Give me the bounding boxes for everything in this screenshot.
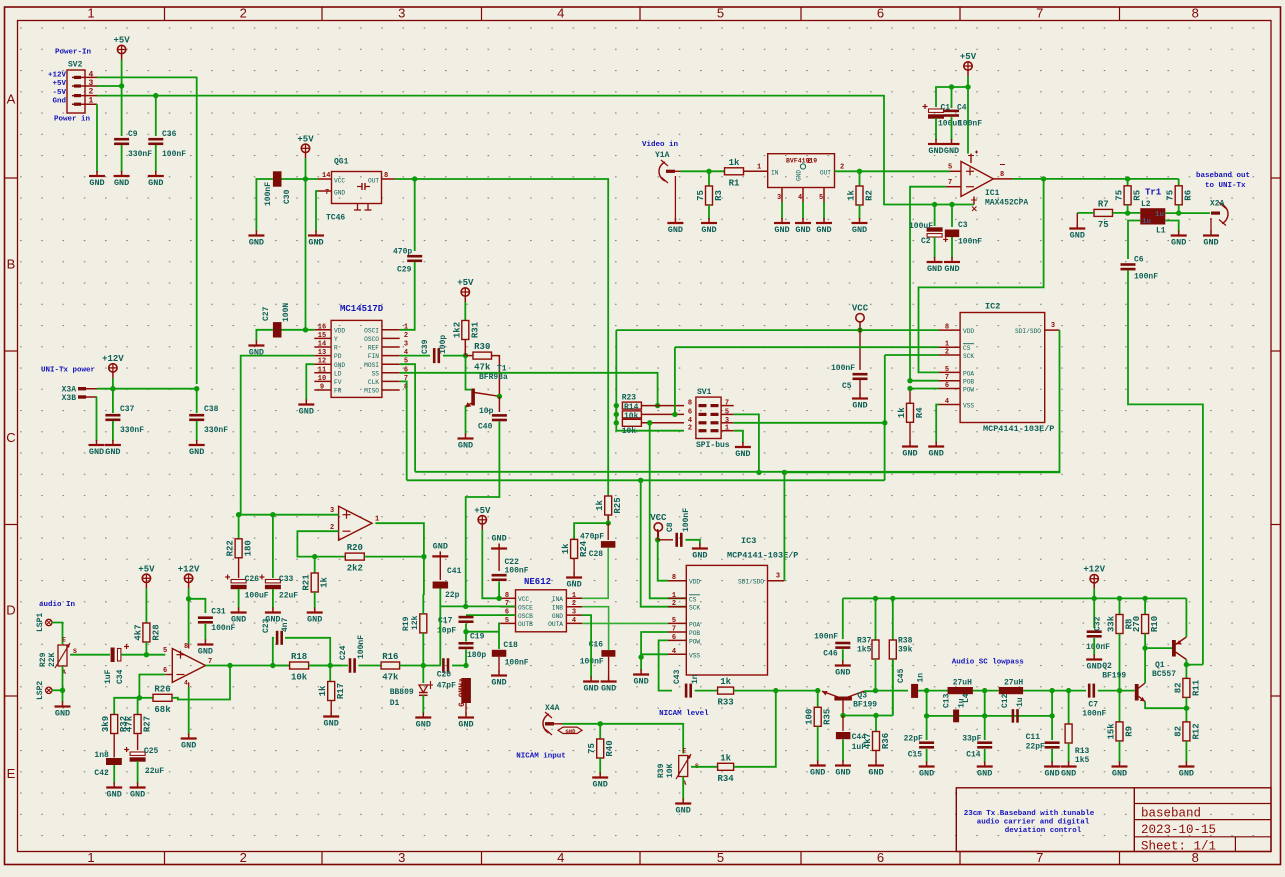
resistor R21 (302, 573, 330, 592)
svg-text:3k9: 3k9 (101, 716, 111, 732)
capacitor C8 plates (675, 533, 682, 547)
svg-text:GND: GND (566, 580, 581, 590)
svg-text:GND: GND (601, 684, 616, 694)
svg-text:5: 5 (717, 6, 724, 21)
ground R36 (868, 761, 884, 778)
svg-text:75: 75 (1098, 220, 1109, 230)
svg-text:C3: C3 (958, 221, 968, 230)
svg-text:GND: GND (668, 225, 683, 235)
wire emitter to ground (465, 406, 467, 434)
wire Q1 collector down (1185, 660, 1187, 665)
svg-text:GND: GND (593, 780, 608, 790)
svg-text:GND: GND (852, 225, 867, 235)
svg-text:BFR93a: BFR93a (479, 373, 508, 382)
svg-text:R39: R39 (657, 763, 666, 778)
junction sum node (773, 688, 778, 693)
capacitor C25 (124, 747, 146, 762)
svg-text:100nF: 100nF (958, 120, 982, 129)
svg-text:2: 2 (240, 850, 247, 865)
svg-text:4k7: 4k7 (133, 624, 143, 640)
wire R32 to C42 (113, 734, 115, 758)
junction VCC C22 (496, 596, 501, 601)
capacitor C31 plates (198, 616, 213, 623)
svg-text:7: 7 (945, 374, 949, 382)
svg-text:7: 7 (672, 626, 676, 634)
resistor R32 (101, 715, 129, 734)
svg-text:POW: POW (963, 387, 974, 394)
svg-text:to UNI-Tx: to UNI-Tx (1205, 182, 1246, 190)
svg-text:BB809: BB809 (390, 688, 414, 697)
svg-text:100nF: 100nF (264, 182, 273, 206)
svg-text:47k: 47k (474, 363, 491, 373)
capacitor C3 body (945, 230, 959, 238)
wire VSS to POB ground (641, 654, 668, 657)
svg-text:C40: C40 (478, 423, 493, 432)
pin stub op1 - input (165, 674, 172, 676)
capacitor C28 body (601, 541, 616, 548)
svg-text:OUTB: OUTB (518, 621, 533, 628)
svg-text:LSP1: LSP1 (36, 613, 45, 632)
svg-text:R24: R24 (579, 540, 589, 557)
capacitor C43 plates (685, 684, 692, 698)
svg-text:180: 180 (244, 540, 254, 556)
svg-text:1: 1 (945, 341, 949, 349)
wire to C31 (189, 599, 206, 613)
wire C19 to varactor node (465, 650, 467, 666)
wire C43 to R33 (695, 690, 718, 692)
svg-text:2: 2 (240, 6, 247, 21)
resistor R35 (817, 691, 819, 708)
svg-text:3: 3 (725, 417, 729, 425)
svg-text:6: 6 (877, 6, 884, 21)
junction base node (840, 713, 845, 718)
capacitor C20 plates (442, 658, 449, 673)
resistor R9 (1119, 691, 1121, 722)
svg-text:5: 5 (948, 164, 952, 172)
svg-text:100nF: 100nF (162, 150, 186, 159)
svg-text:1: 1 (572, 592, 576, 600)
wire op1 V- to ground (188, 687, 190, 735)
ground C22 (inverted) (491, 534, 507, 549)
svg-text:GND: GND (735, 449, 750, 459)
svg-text:GND: GND (927, 264, 942, 274)
svg-text:MAX452CPA: MAX452CPA (985, 199, 1028, 208)
IC video filter BVF41919 box (768, 154, 835, 188)
junction output/feedback (1041, 176, 1046, 181)
svg-text:100nF: 100nF (211, 624, 235, 633)
power symbol +5V R31 (457, 278, 474, 302)
svg-text:2023-10-15: 2023-10-15 (1141, 823, 1216, 837)
junction C36 tap (153, 93, 158, 98)
ground R12 (1178, 762, 1194, 779)
junction Q2 collector / Q1 base (1142, 645, 1147, 650)
resistor R21 (314, 557, 316, 573)
svg-text:75: 75 (696, 190, 706, 201)
svg-text:R11: R11 (1191, 679, 1201, 696)
svg-text:SCK: SCK (689, 605, 700, 612)
wire Q2 collector to Q1 base (1145, 647, 1172, 649)
wire OSCB to C17 top (466, 614, 516, 616)
resistor R17 (329, 666, 331, 682)
svg-text:Gnd: Gnd (52, 97, 66, 105)
wire collector to baseband riser (1186, 664, 1203, 666)
connector X4A (543, 704, 562, 735)
SV1 right stubs (721, 406, 734, 431)
connector pin X3B (62, 394, 97, 403)
svg-text:39k: 39k (898, 646, 913, 655)
wire POW (910, 388, 939, 390)
wire CS line from SV1 (675, 346, 939, 348)
wire POA from NE612 OUTA (582, 622, 668, 624)
resistor R19 (420, 614, 427, 633)
svg-text:GND: GND (1179, 769, 1194, 779)
junction POB (907, 378, 912, 383)
svg-text:13: 13 (318, 349, 326, 357)
capacitor C9 plates (114, 138, 129, 145)
resistor R34 (717, 753, 734, 784)
svg-text:R30: R30 (474, 342, 490, 352)
svg-text:82: 82 (1173, 682, 1183, 693)
svg-text:7: 7 (325, 189, 329, 197)
svg-text:8: 8 (945, 324, 949, 332)
wire R20 right to op2 output riser (364, 556, 424, 558)
junction feedback node (137, 695, 142, 700)
svg-text:Q1: Q1 (1155, 661, 1165, 670)
junction VDD +5V (303, 327, 308, 332)
power symbol VCC IC2 (852, 304, 869, 328)
wire SDO riser to bus (784, 330, 1059, 472)
svg-text:GND: GND (701, 225, 716, 235)
svg-text:2: 2 (404, 332, 408, 340)
resistor R40 (587, 739, 615, 758)
svg-text:C46: C46 (823, 650, 838, 659)
wire R7 left to ground (1076, 213, 1078, 225)
svg-text:GND: GND (307, 615, 322, 625)
svg-text:C29: C29 (397, 266, 412, 275)
capacitor C1 (923, 104, 945, 119)
ground C46 (835, 661, 851, 678)
svg-text:C30: C30 (283, 189, 292, 204)
svg-text:47pF: 47pF (437, 682, 456, 691)
ground filter pin5 (816, 218, 832, 235)
resistor R18 (273, 665, 290, 667)
svg-text:9: 9 (320, 384, 324, 392)
junction R25 bottom / R24 (606, 520, 611, 525)
wire pot wiper to R34 (691, 766, 718, 768)
ground R13 (1061, 762, 1077, 779)
svg-text:R12: R12 (1191, 723, 1201, 739)
svg-text:4: 4 (557, 850, 564, 865)
wire R24 branch (574, 523, 608, 539)
svg-text:R10: R10 (1150, 616, 1160, 632)
svg-text:100nF: 100nF (958, 238, 982, 247)
wire op1 output (206, 665, 342, 667)
ground C3 (944, 257, 960, 274)
svg-text:B: B (7, 257, 16, 272)
capacitor C2 (927, 227, 949, 242)
wire L5 to C7 (1023, 690, 1086, 692)
resistor R28 (145, 588, 147, 623)
svg-text:1k: 1k (318, 685, 328, 696)
ground C16 (601, 677, 617, 694)
pin stub QG1 VCC (318, 178, 332, 180)
svg-text:NE612: NE612 (524, 577, 551, 587)
resistor R17 (318, 682, 346, 701)
svg-text:1: 1 (757, 164, 761, 172)
wire SV2 pin3 to +5V column (97, 85, 122, 87)
wire C30 to ground (256, 179, 273, 232)
IC MC14517D box (331, 304, 384, 397)
wire SV1 pin3 long to SCK riser (734, 423, 885, 481)
potentiometer R39 (657, 748, 699, 788)
svg-text:GND: GND (249, 238, 264, 248)
svg-text:R29: R29 (39, 652, 48, 667)
wire SV1 pin1 to ground (734, 431, 743, 443)
video filter bottom stubs 3 4 5 (777, 188, 824, 203)
wire SCK net from pin4 (650, 423, 687, 599)
wire riser to R38 (892, 658, 894, 716)
svg-text:1k: 1k (595, 499, 605, 510)
svg-text:VSS: VSS (963, 403, 974, 410)
capacitor C19 plates (459, 642, 474, 649)
svg-text:100uF: 100uF (909, 222, 933, 231)
capacitor C7 plates (1088, 684, 1095, 698)
wire +12V rail to Q1 emitter (1185, 598, 1187, 637)
resistor R12 (1173, 722, 1201, 741)
ground R2 (852, 218, 868, 235)
ground C42 (106, 783, 122, 800)
capacitor C45 body (911, 684, 918, 698)
svg-text:100nF: 100nF (1086, 643, 1110, 652)
ground C30 (248, 231, 264, 248)
svg-text:2: 2 (945, 349, 949, 357)
resistor R20 (315, 556, 346, 558)
svg-text:4: 4 (672, 648, 676, 656)
resistor R13 (1068, 691, 1070, 724)
svg-text:IC3: IC3 (741, 536, 756, 546)
svg-text:MOSI: MOSI (364, 362, 379, 369)
junction output feedback (227, 663, 232, 668)
power symbol +5V top-left (113, 36, 130, 60)
wire FIN row with C39 (400, 355, 430, 357)
capacitor C45 (876, 690, 909, 692)
svg-text:FV: FV (334, 379, 342, 386)
riser L3/L5 to row2 (984, 691, 986, 716)
svg-text:CS: CS (689, 596, 697, 603)
junction C15 tap (924, 688, 929, 693)
svg-text:1k: 1k (847, 189, 857, 200)
svg-text:GND: GND (89, 447, 104, 457)
resistor R2 (859, 171, 861, 186)
svg-text:100nF: 100nF (505, 659, 529, 668)
svg-text:1u: 1u (1155, 211, 1164, 219)
svg-text:C27: C27 (262, 306, 271, 321)
MC14517D left pin stubs (314, 323, 331, 391)
svg-text:1k5: 1k5 (1075, 756, 1090, 765)
connector Y1A (655, 151, 680, 183)
svg-text:FIN: FIN (368, 353, 379, 360)
svg-text:Tr1: Tr1 (1145, 188, 1162, 198)
inductor L3 body (948, 687, 973, 694)
capacitor C44 body (836, 732, 851, 739)
solder pad LSP1 (36, 613, 52, 632)
wire QG1 OUT to NE612 LO (long) (395, 179, 608, 496)
svg-text:VCC: VCC (518, 596, 529, 603)
wire PD pin to op-amp bias (long down) (241, 356, 315, 515)
svg-text:REF: REF (368, 345, 379, 352)
ground R3 (701, 218, 717, 235)
svg-text:GND: GND (852, 401, 867, 411)
resistor R10 (1144, 598, 1146, 614)
ground op1 (181, 734, 197, 751)
svg-text:10k: 10k (291, 673, 308, 683)
ground R24 (566, 573, 582, 590)
wire collector to C40 (498, 396, 500, 412)
svg-text:audio carrier and digital: audio carrier and digital (977, 819, 1090, 827)
svg-text:R9: R9 (1125, 726, 1135, 737)
potentiometer R29 (39, 637, 77, 677)
wire MOSI to serial bus riser (400, 364, 415, 472)
wire QG1 GND pin to ground (316, 191, 318, 232)
svg-text:10K: 10K (666, 763, 675, 778)
svg-text:C28: C28 (589, 550, 604, 559)
diode D1 BB809 varactor (422, 666, 424, 684)
junction R11/R12/Q2 emitter (1184, 706, 1189, 711)
svg-text:1k: 1k (729, 158, 740, 168)
resistor R24 (561, 539, 589, 558)
ground IC3 POB (633, 670, 649, 687)
svg-text:PD: PD (334, 353, 342, 360)
power symbol +12V UNI-Tx (102, 354, 124, 378)
svg-text:GND: GND (1070, 231, 1085, 241)
wire pot bottom to LSP2 (62, 666, 64, 690)
ground SV1 (735, 442, 751, 459)
svg-text:MISO: MISO (364, 388, 379, 395)
pin stub QG1 GND (318, 190, 332, 192)
svg-text:4k7: 4k7 (863, 733, 873, 749)
wire lower bus riser to IC3 SCK (641, 480, 687, 606)
ground C8 (692, 544, 708, 561)
wire X4A to NICAM level (562, 724, 683, 754)
capacitor C3 100nF (951, 205, 953, 228)
svg-text:QG1: QG1 (334, 158, 349, 167)
wire C29 to OSC1 (400, 262, 415, 330)
svg-text:E: E (62, 637, 66, 644)
svg-text:C31: C31 (211, 608, 226, 617)
wire C28 down to INA (582, 548, 608, 599)
wire C29 branch down (414, 179, 416, 251)
oscillator QG1 box (322, 158, 388, 223)
svg-text:R40: R40 (605, 740, 615, 756)
svg-text:GND: GND (583, 684, 598, 694)
svg-text:75: 75 (587, 743, 597, 754)
wire LSP2 junction to ground (52, 689, 63, 691)
svg-text:CS: CS (963, 345, 971, 352)
capacitor C37 (112, 378, 114, 413)
ground filter pin4 (795, 218, 811, 235)
wire Tr1 secondary out (1165, 212, 1210, 214)
+12V audio rail (843, 597, 1187, 599)
wire R30 right to collector (492, 356, 500, 397)
svg-text:4: 4 (688, 417, 692, 425)
svg-text:MCP4141-103E/P: MCP4141-103E/P (727, 551, 798, 561)
svg-text:IC2: IC2 (985, 302, 1000, 312)
IC3 SDI/SDO pin (738, 573, 784, 586)
ground R35 (810, 761, 826, 778)
svg-text:R26: R26 (154, 684, 170, 694)
junction resonator node (463, 663, 468, 668)
svg-text:C42: C42 (94, 769, 109, 778)
wire -5V rail caps (932, 202, 937, 207)
capacitor C37 plates (105, 414, 120, 421)
svg-text:1k: 1k (897, 407, 907, 418)
svg-text:GND: GND (308, 238, 323, 248)
svg-text:11: 11 (318, 366, 326, 374)
svg-text:R19: R19 (402, 616, 411, 631)
svg-text:R16: R16 (382, 652, 398, 662)
ground C11 (1044, 762, 1060, 779)
title block (956, 788, 1271, 852)
svg-text:5: 5 (819, 194, 823, 202)
svg-text:1k: 1k (720, 677, 731, 687)
svg-text:100: 100 (805, 709, 815, 725)
svg-text:6.0MHz: 6.0MHz (458, 678, 467, 707)
capacitor C39 plates (433, 348, 440, 363)
svg-text:GND: GND (299, 407, 314, 417)
ground C5 (852, 394, 868, 411)
svg-text:4: 4 (798, 194, 802, 202)
svg-text:3: 3 (1051, 322, 1055, 330)
resistor R3 (696, 186, 724, 205)
wire R15 to SV1 pin6 (641, 413, 684, 415)
ground Y1A (667, 218, 683, 235)
resistor R4 (909, 389, 911, 404)
wire MC GND pin to ground (306, 364, 314, 400)
ground C36 (148, 171, 164, 188)
svg-text:2: 2 (572, 600, 576, 608)
svg-text:75: 75 (1115, 190, 1125, 201)
wire filter OUT to IC1 (835, 170, 951, 172)
svg-text:27uH: 27uH (953, 679, 972, 688)
capacitor C5 plates (853, 373, 868, 380)
junction VCC C8 (655, 537, 660, 542)
svg-text:VDD: VDD (963, 328, 974, 335)
capacitor C41 body (433, 582, 449, 589)
capacitor C23 plates (276, 631, 283, 645)
capacitor C12 plates (1012, 709, 1019, 723)
svg-text:47k: 47k (125, 715, 135, 732)
ground R4 (902, 442, 918, 459)
svg-text:GND: GND (105, 447, 120, 457)
svg-text:1k: 1k (561, 543, 571, 554)
wires C1 C4 grounds (935, 118, 937, 140)
svg-text:8: 8 (505, 592, 509, 600)
svg-text:GND: GND (868, 768, 883, 778)
ground LSP2 (55, 702, 71, 719)
svg-text:+5V: +5V (52, 80, 66, 88)
junction SCK/pin3 row (882, 420, 887, 425)
wire X2A shield to ground (1210, 218, 1212, 232)
wire R7 to Tr1 (1113, 212, 1141, 214)
svg-text:R33: R33 (717, 698, 733, 708)
svg-text:1u: 1u (1016, 697, 1025, 707)
svg-text:C19: C19 (470, 633, 485, 642)
svg-text:C18: C18 (503, 641, 518, 650)
svg-text:GND: GND (810, 768, 825, 778)
resistor R15 (10k) (622, 411, 641, 418)
svg-text:R1: R1 (729, 178, 740, 188)
svg-text:GND: GND (944, 146, 959, 156)
